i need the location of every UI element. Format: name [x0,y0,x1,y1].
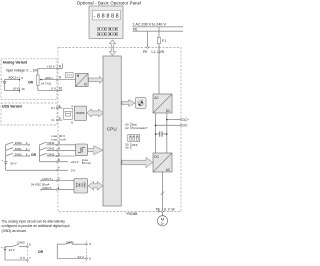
svg-text:7: 7 [58,167,60,171]
svg-text:U, V, W: U, V, W [164,208,175,212]
svg-text:Termination*: Termination* [132,126,148,130]
svg-text:L1, L2/N: L1, L2/N [152,50,165,54]
svg-text:24 V: 24 V [9,248,16,252]
svg-text:OR: OR [31,153,37,157]
svg-text:10: 10 [21,87,25,91]
svg-text:9: 9 [29,243,31,247]
svg-text:AC: AC [154,96,159,100]
svg-text:DC: DC [154,155,159,159]
svg-text:N-: N- [51,118,54,122]
svg-text:CPU: CPU [107,126,117,131]
svg-text:DIN2: DIN2 [15,152,22,156]
svg-text:P+: P+ [51,106,55,110]
svg-text:DIN2: DIN2 [48,152,55,156]
svg-text:DIN1: DIN1 [48,147,55,151]
svg-text:24 V: 24 V [10,162,17,166]
svg-text:RS485: RS485 [76,111,85,115]
svg-text:F1: F1 [162,39,166,43]
svg-text:(DIN3) as shown.: (DIN3) as shown. [2,229,28,233]
svg-text:DIN3: DIN3 [66,240,73,244]
svg-text:7: 7 [29,256,31,260]
svg-text:9: 9 [59,76,61,80]
svg-text:24 V: 24 V [78,255,85,259]
svg-text:DOUT+: DOUT+ [43,177,54,181]
svg-text:*RS485: *RS485 [126,212,137,216]
svg-text:Hz: Hz [125,126,129,130]
svg-text:AC: AC [166,168,171,172]
svg-text:DOUT-: DOUT- [43,186,53,190]
svg-text:-88888: -88888 [94,13,119,19]
svg-text:9: 9 [89,242,91,246]
svg-text:OFF: OFF [132,143,138,147]
svg-text:The analog input circuit can b: The analog input circuit can be alternat… [2,219,66,223]
svg-text:+24 V: +24 V [71,160,80,164]
svg-text:5: 5 [58,152,60,156]
svg-text:Hz: Hz [125,146,129,150]
svg-text:8: 8 [59,104,61,108]
svg-text:50 mA): 50 mA) [82,161,91,165]
svg-text:DIN0: DIN0 [48,141,55,145]
svg-text:3~: 3~ [161,222,165,226]
svg-text:≥4.7 kΩ: ≥4.7 kΩ [41,82,52,86]
svg-text:1: 1 [58,186,60,190]
svg-text:+10 V: +10 V [47,65,56,69]
svg-text:DC: DC [166,109,171,113]
svg-text:configured to provide an addit: configured to provide an additional digi… [2,224,70,228]
svg-text:4: 4 [58,147,60,151]
svg-text:Analog Variant: Analog Variant [3,61,28,65]
svg-text:6: 6 [89,257,91,261]
svg-text:1 AC 200 V to 240 V: 1 AC 200 V to 240 V [133,22,167,26]
svg-text:DC-: DC- [183,124,189,128]
svg-text:OR: OR [28,81,34,85]
svg-text:DIN1: DIN1 [15,147,22,151]
svg-text:6: 6 [58,158,60,162]
svg-text:ADC1+: ADC1+ [8,76,18,80]
svg-text:DIN3: DIN3 [18,241,25,245]
svg-text:(0 V): (0 V) [13,87,20,91]
svg-text:DIN0: DIN0 [15,141,22,145]
svg-text:Optional - Basic Operator Pane: Optional - Basic Operator Panel [77,1,141,6]
svg-text:8: 8 [59,65,61,69]
svg-text:OR: OR [38,250,44,254]
svg-text:2: 2 [58,177,60,181]
svg-text:USS Variant: USS Variant [2,105,23,109]
svg-text:ADC+: ADC+ [45,76,54,80]
svg-text:9: 9 [59,117,61,121]
svg-text:Input Voltage: 0 ... 10V: Input Voltage: 0 ... 10V [6,69,39,73]
svg-text:3: 3 [58,141,60,145]
svg-text:PE: PE [156,208,160,212]
svg-text:DC+: DC+ [183,118,190,122]
